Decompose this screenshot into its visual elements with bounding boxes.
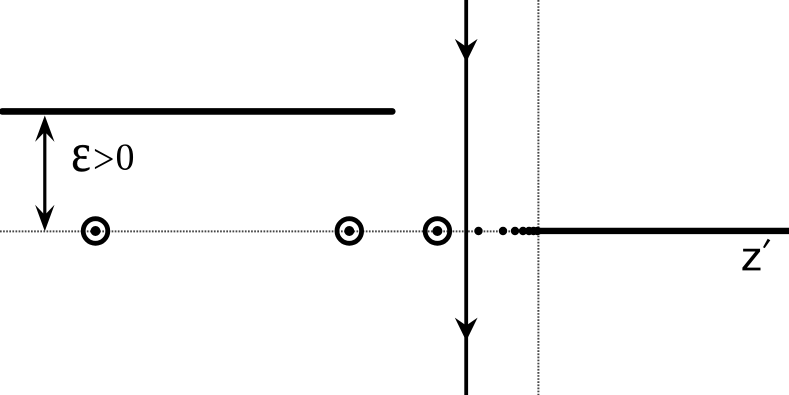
wire: upper-left thick horizontal line (contour shifted by epsilon) bbox=[2, 108, 392, 115]
arrowhead on contour (top, pointing down) bbox=[455, 39, 478, 62]
arrowhead of epsilon arrow (down) bbox=[35, 205, 54, 231]
label z glyph bbox=[742, 249, 760, 271]
wire: thick branch-cut line on right of axis bbox=[540, 228, 789, 234]
wire: vertical solid contour line bbox=[464, 0, 468, 395]
label zero glyph bbox=[117, 144, 133, 170]
label epsilon glyph bbox=[73, 145, 89, 171]
pole P3: circled dot bbox=[425, 219, 450, 244]
wire: vertical dotted line at branch point bbox=[537, 0, 539, 395]
pole P2: circled dot bbox=[337, 219, 362, 244]
arrowhead of epsilon arrow (up) bbox=[35, 116, 54, 142]
label greater-than glyph bbox=[95, 149, 113, 169]
accumulating pole dots toward branch point bbox=[474, 227, 541, 235]
prime mark of z' bbox=[763, 239, 770, 248]
wire: horizontal dotted real axis bbox=[0, 230, 789, 232]
wire: double-headed epsilon arrow shaft bbox=[43, 120, 46, 226]
arrowhead on contour (bottom, pointing down) bbox=[455, 318, 478, 341]
pole P1: circled dot bbox=[83, 219, 108, 244]
